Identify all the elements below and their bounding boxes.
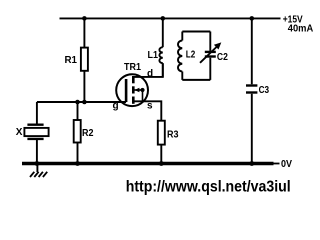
wire: R1 top lead from +15V rail <box>83 18 85 47</box>
svg-text:http://www.qsl.net/va3iul: http://www.qsl.net/va3iul <box>126 179 291 196</box>
svg-text:R2: R2 <box>82 128 94 139</box>
wire: R1 bottom lead to gate node <box>83 71 85 102</box>
wire: R3 bottom lead to 0V rail <box>160 145 162 164</box>
wire: C3 top lead from +15V rail <box>251 18 253 84</box>
svg-text:X: X <box>16 127 23 138</box>
crystal X <box>24 125 48 139</box>
inductor L2 <box>178 32 182 80</box>
svg-text:40mA: 40mA <box>288 23 313 34</box>
node: junction R1/top rail <box>82 16 87 21</box>
wire: bottom 0V rail <box>22 162 274 166</box>
wire: crystal top lead <box>36 102 38 124</box>
svg-text:0V: 0V <box>281 159 292 170</box>
tank loop bottom wire <box>182 79 210 81</box>
wire: top +15V rail <box>60 17 281 19</box>
wire: C3 bottom lead to 0V rail <box>251 94 253 164</box>
svg-text:C2: C2 <box>217 52 228 63</box>
resistor R2 <box>74 120 81 143</box>
tank loop top wire <box>182 31 210 33</box>
resistor R3 <box>158 121 165 145</box>
wire: R2 top lead <box>77 102 79 120</box>
node: junction crystal/0V rail <box>35 161 40 166</box>
transistor TR1 (MOSFET) <box>116 74 148 106</box>
svg-text:C3: C3 <box>259 85 270 96</box>
wire: gate bus from crystal to TR1 gate <box>37 101 126 103</box>
wire: crystal bottom lead to 0V rail <box>36 140 38 164</box>
wire: R2 bottom lead to 0V rail <box>77 143 79 164</box>
capacitor C3 <box>246 86 257 93</box>
capacitor C2 (variable) <box>200 32 221 80</box>
wire: source lead to R3 <box>133 101 161 120</box>
svg-text:L1: L1 <box>148 50 159 61</box>
node: junction R2/0V rail <box>75 161 80 166</box>
node: junction R3/0V rail <box>159 161 164 166</box>
wire: drain lead up to L1 <box>133 64 163 77</box>
svg-text:R1: R1 <box>65 55 78 66</box>
svg-text:TR1: TR1 <box>124 62 141 73</box>
svg-text:R3: R3 <box>167 130 179 141</box>
inductor L1 <box>159 18 162 77</box>
resistor R1 <box>81 48 88 71</box>
node: junction C3/0V rail <box>249 161 254 166</box>
node: junction R2/gate bus <box>75 100 80 105</box>
wire: 0V rail thin end segment <box>274 163 280 165</box>
ground (chassis) symbol <box>30 165 47 177</box>
node: junction R1/gate bus <box>82 100 87 105</box>
node: junction L1/top rail <box>161 16 166 21</box>
svg-text:g: g <box>113 101 119 112</box>
node: junction C3/top rail <box>250 16 255 21</box>
svg-text:L2: L2 <box>186 50 196 61</box>
